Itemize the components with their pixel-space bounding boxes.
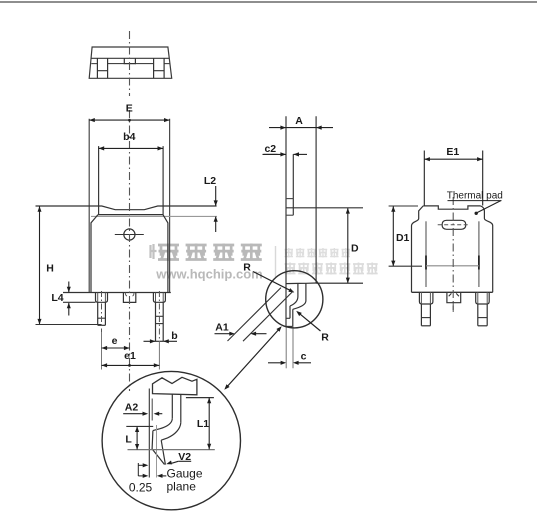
top view chamfer edge line xyxy=(91,57,169,59)
back view tab hole stadium xyxy=(438,220,470,229)
front view body side inner lines and chamfers xyxy=(91,215,168,293)
back view left lead shoulder xyxy=(419,292,433,304)
dimension D1 xyxy=(389,206,422,266)
gauge detail upper lead edges xyxy=(172,394,181,422)
dimension E xyxy=(89,103,169,123)
svg-text:b4: b4 xyxy=(123,131,135,143)
side view tab front c2 line xyxy=(292,154,294,215)
watermark partial glyph left sliver xyxy=(151,244,157,259)
svg-text:Gauge: Gauge xyxy=(167,467,203,481)
svg-text:0.25: 0.25 xyxy=(129,481,153,495)
svg-text:D: D xyxy=(351,243,359,255)
gauge plane horizontal line xyxy=(128,449,215,451)
top view package outline xyxy=(89,47,172,78)
label gauge plane with arrow xyxy=(157,467,203,494)
dimension L2 xyxy=(204,175,218,232)
side view back edge line xyxy=(285,116,287,326)
svg-text:H: H xyxy=(46,263,54,275)
gauge detail lead bend curves xyxy=(153,418,181,440)
svg-text:L: L xyxy=(125,433,132,445)
front view pin1 index circle xyxy=(115,229,144,240)
svg-text:R: R xyxy=(321,332,329,344)
svg-text:L1: L1 xyxy=(197,418,209,430)
dimension V2 with underline and arrow xyxy=(166,451,191,465)
side view lead bend S curves xyxy=(286,283,306,326)
front view center stub xyxy=(123,293,135,303)
watermark huaqiang group CJK small xyxy=(285,248,351,258)
dimension E1 xyxy=(424,146,482,206)
svg-text:L2: L2 xyxy=(204,175,216,187)
dimension c xyxy=(268,350,311,365)
dimension L xyxy=(125,426,153,449)
svg-text:A: A xyxy=(295,115,303,127)
side view front edge line xyxy=(315,116,317,283)
svg-text:E1: E1 xyxy=(446,146,459,158)
svg-text:c2: c2 xyxy=(264,143,276,155)
side view body bottom edge xyxy=(286,282,316,285)
svg-text:c: c xyxy=(301,350,307,362)
top view right lead end xyxy=(154,58,165,78)
dimension e1 xyxy=(102,350,160,368)
side view detail circle xyxy=(266,271,323,328)
label R lower with leader arrow xyxy=(296,311,329,344)
back view right lead xyxy=(478,304,487,326)
back view tab top edge with notch xyxy=(423,206,480,209)
gauge detail lower lead slanted xyxy=(152,431,165,465)
top view center tab stub xyxy=(124,58,135,63)
back view left shoulder outline xyxy=(412,206,424,292)
top view inner ledge line xyxy=(91,63,169,65)
front view body bottom edge with L4 extension xyxy=(63,292,171,294)
dimension b4 xyxy=(99,131,164,151)
gauge detail gray gauge vertical line xyxy=(156,425,158,478)
side view notch line with D extension xyxy=(286,207,363,209)
front view left lead shoulder xyxy=(96,293,108,303)
watermark divider line xyxy=(275,246,277,277)
front view body top gray line L2 extension xyxy=(91,215,217,217)
dimension L1 xyxy=(186,398,214,450)
front view left lead xyxy=(98,302,106,325)
front view tab bottom notch edge with H extension xyxy=(36,206,217,210)
front view body top edge xyxy=(98,214,163,216)
svg-text:plane: plane xyxy=(167,480,197,494)
back view body bottom edge xyxy=(412,291,493,293)
front view right lead shoulder xyxy=(153,293,165,303)
svg-text:L4: L4 xyxy=(51,292,63,304)
top view centerline xyxy=(129,31,131,96)
dimension H xyxy=(36,206,102,324)
label R upper with leader arrow xyxy=(243,261,294,292)
dimension A2 xyxy=(123,402,162,416)
svg-text:E: E xyxy=(126,103,133,115)
back view center stub xyxy=(447,292,461,312)
svg-text:A1: A1 xyxy=(215,321,229,333)
dimension b xyxy=(144,330,178,343)
side view lead tip extension lines xyxy=(286,326,293,368)
front view main centerline xyxy=(129,110,131,391)
watermark component mall CJK xyxy=(285,263,378,275)
watermark hqchip gray CJK text xyxy=(158,244,262,261)
svg-text:e: e xyxy=(112,335,118,347)
front view tab inner edges b4 xyxy=(99,146,164,215)
back view inner tab edges xyxy=(426,221,479,287)
dimension L4 xyxy=(51,282,95,316)
svg-text:e1: e1 xyxy=(124,350,136,362)
gauge detail vertical reference line xyxy=(148,389,150,478)
back view right shoulder outline xyxy=(481,206,493,292)
side view tab step lines xyxy=(286,199,293,216)
gauge detail body with break line xyxy=(153,377,197,395)
svg-text:A2: A2 xyxy=(125,402,139,414)
dimension 0.25 xyxy=(129,463,153,495)
dimension A1 with datum lines xyxy=(215,288,294,342)
back view centerline xyxy=(452,197,454,310)
svg-text:D1: D1 xyxy=(396,232,410,244)
top view left lead end xyxy=(97,58,107,78)
svg-text:b: b xyxy=(171,330,177,342)
svg-text:Thermal pad: Thermal pad xyxy=(447,191,503,202)
dimension A xyxy=(269,115,333,130)
front view right lead centerline xyxy=(158,291,160,370)
page top rule xyxy=(0,1,537,3)
gauge detail circle xyxy=(102,371,240,509)
connector arrow between detail circles xyxy=(224,326,281,390)
back view right lead shoulder xyxy=(476,292,490,304)
gauge detail lead back extension line xyxy=(151,399,153,421)
back view left lead xyxy=(421,304,430,326)
dimension D xyxy=(316,208,363,283)
svg-text:R: R xyxy=(243,261,251,273)
back view mold line xyxy=(426,265,479,267)
dimension e xyxy=(102,335,130,350)
dimension c2 xyxy=(263,143,308,157)
front view right lead long xyxy=(156,302,164,341)
front view left lead centerline xyxy=(101,291,103,370)
front view tab outer edges xyxy=(89,119,169,293)
label thermal pad with leader xyxy=(447,191,503,215)
